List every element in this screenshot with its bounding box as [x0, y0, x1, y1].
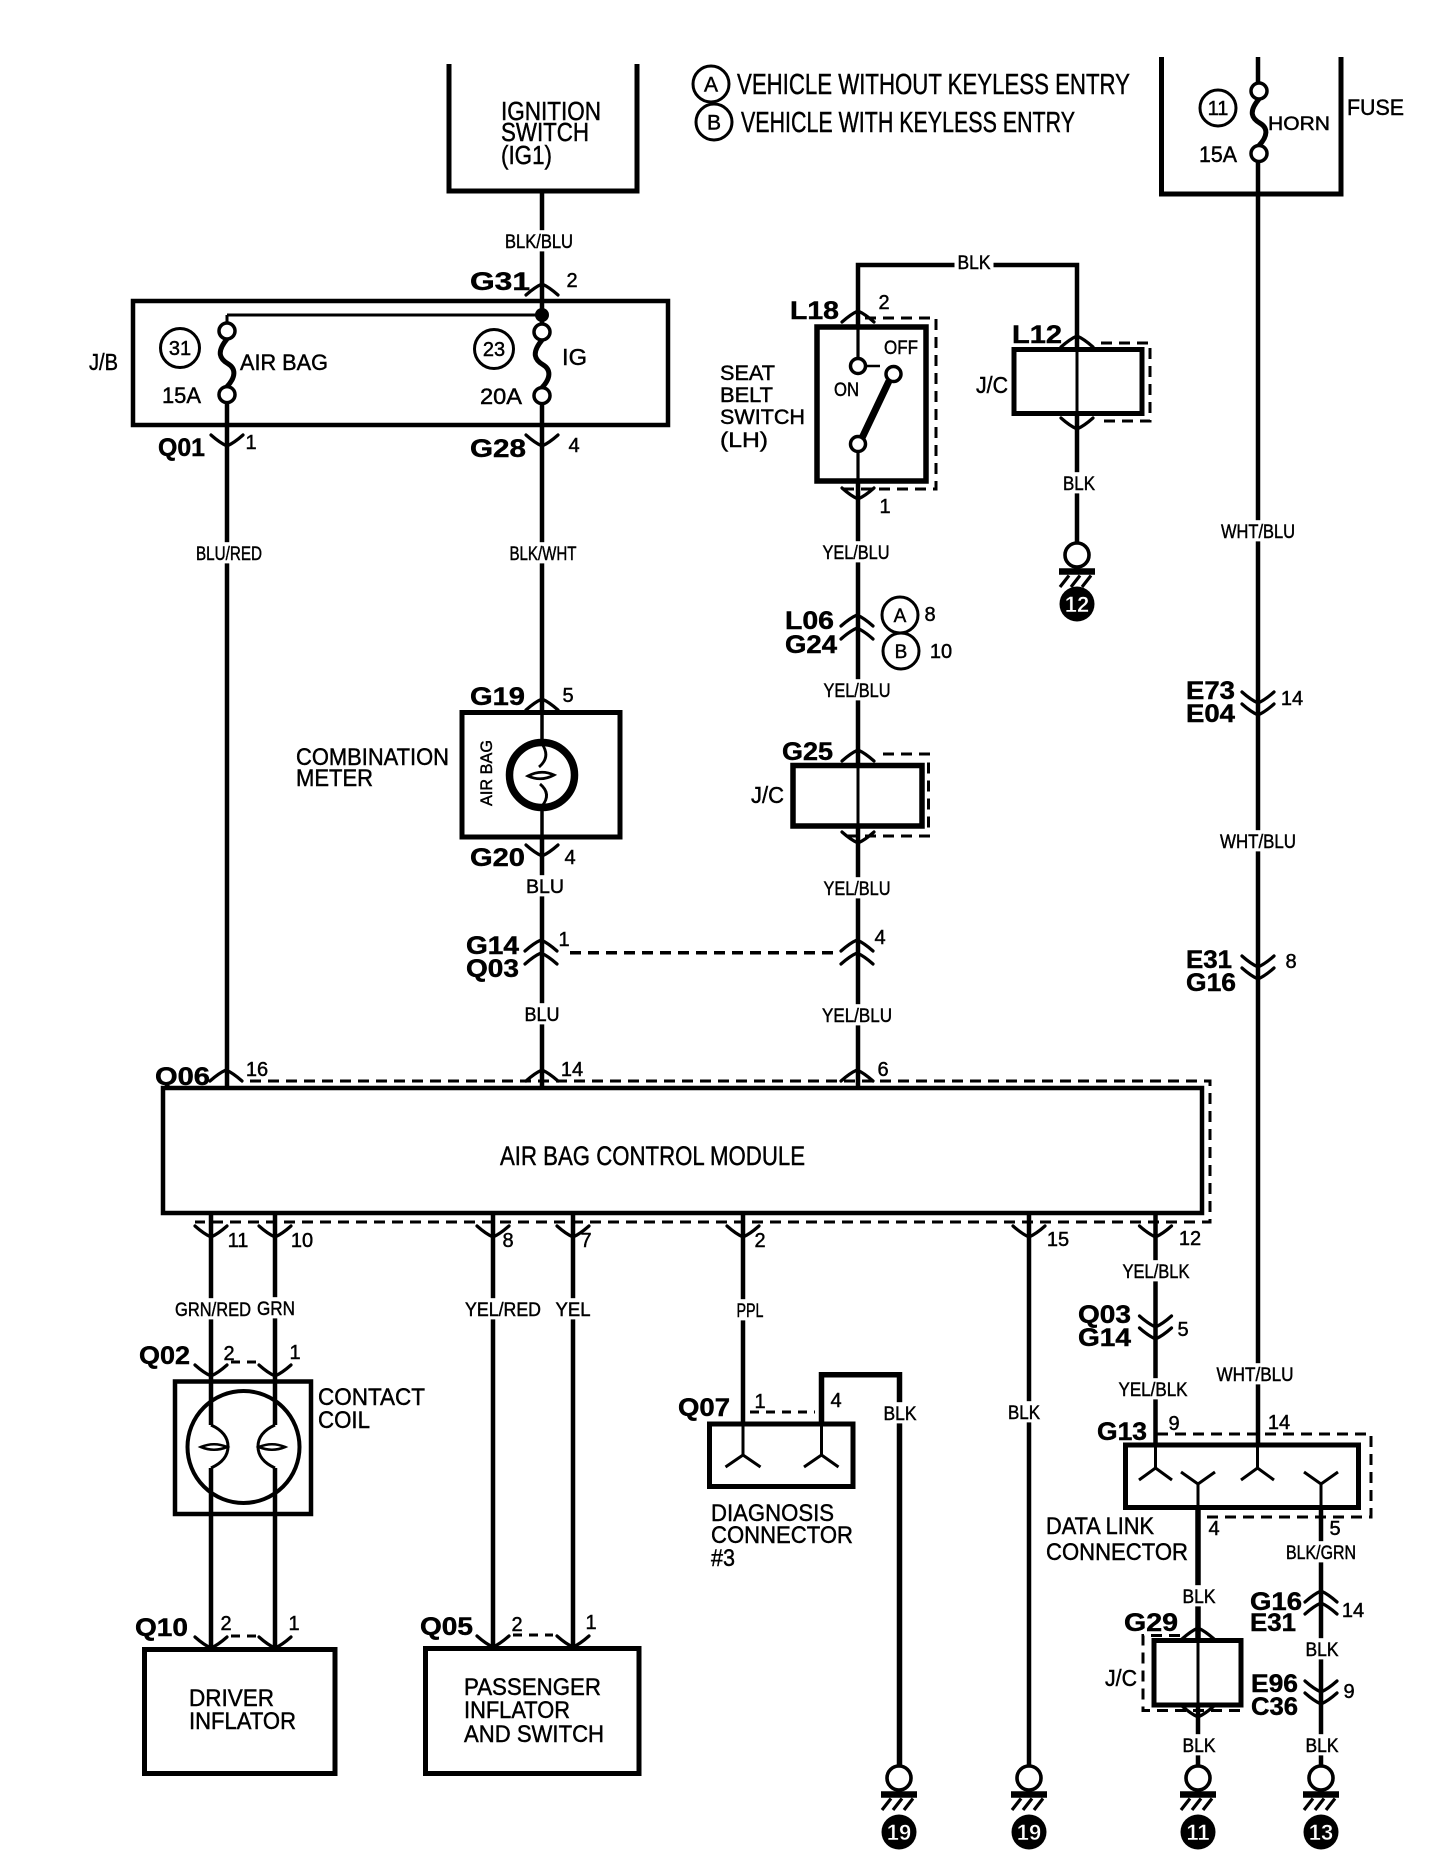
label BLU/RED: [193, 542, 265, 563]
contact coil box: [175, 1382, 311, 1515]
connector E96/C36 pin 9: [1305, 1681, 1337, 1692]
legend circle B: [696, 104, 732, 140]
svg-text:5: 5: [562, 685, 573, 707]
diagnosis connector #3 box: [710, 1424, 854, 1487]
legend circle A: [693, 66, 729, 102]
svg-text:Q05: Q05: [420, 1613, 473, 1641]
connector G19 pin 5: [526, 699, 558, 710]
label YEL/BLU: [820, 541, 893, 562]
module pin 6: [841, 1070, 873, 1081]
ground 19 (diagnosis): [887, 1766, 911, 1790]
junction connector G25 dashed outline: [840, 754, 929, 836]
svg-text:SEAT: SEAT: [720, 362, 775, 385]
connector Q01 pin 1: [211, 435, 243, 446]
label YEL/BLU 4: [819, 1004, 895, 1025]
svg-text:9: 9: [1343, 1681, 1354, 1703]
svg-text:YEL/BLU: YEL/BLU: [823, 543, 890, 564]
data link connector box G13: [1126, 1445, 1359, 1508]
connector seat belt switch pin 1: [842, 488, 874, 499]
svg-text:1: 1: [288, 1613, 299, 1635]
ground 19 (module pin 15): [1017, 1766, 1041, 1790]
wire YEL module pin 7 to passenger inflator: [571, 1213, 576, 1649]
label WHT/BLU: [1218, 520, 1298, 541]
data link connector dashed outline G13: [1157, 1434, 1371, 1517]
fuse 23 IG 20A: [534, 324, 550, 340]
ground 13: [1309, 1766, 1333, 1790]
svg-text:15A: 15A: [162, 383, 201, 408]
svg-text:GRN/RED: GRN/RED: [175, 1300, 251, 1321]
svg-text:INFLATOR: INFLATOR: [464, 1697, 570, 1724]
svg-text:BLK: BLK: [1306, 1640, 1339, 1661]
svg-text:BLK: BLK: [1008, 1403, 1040, 1424]
wire BLK data link connector pin 4 to ground 11: [1195, 1508, 1201, 1641]
wire YEL/RED module pin 8 to passenger inflator: [491, 1213, 496, 1649]
air bag control module dashed connector outline Q06: [195, 1081, 1210, 1222]
svg-text:Q02: Q02: [139, 1342, 190, 1370]
svg-text:Q06: Q06: [155, 1063, 210, 1091]
svg-text:AIR BAG CONTROL MODULE: AIR BAG CONTROL MODULE: [500, 1141, 805, 1171]
svg-text:4: 4: [564, 847, 575, 869]
svg-text:4: 4: [874, 927, 885, 949]
wire BLK/WHT G28 to combination meter G19: [540, 404, 545, 713]
connector E31/G16 pin 8: [1242, 956, 1274, 967]
svg-text:14: 14: [1342, 1600, 1364, 1622]
ignition switch box: [449, 64, 637, 191]
svg-text:(LH): (LH): [720, 429, 768, 452]
svg-text:C36: C36: [1251, 1693, 1298, 1721]
svg-text:19: 19: [1017, 1820, 1041, 1845]
svg-text:8: 8: [924, 604, 935, 626]
svg-text:20A: 20A: [480, 384, 522, 409]
svg-text:1: 1: [585, 1612, 596, 1634]
svg-text:BLK: BLK: [1306, 1736, 1339, 1757]
svg-text:VEHICLE WITHOUT KEYLESS ENTRY: VEHICLE WITHOUT KEYLESS ENTRY: [737, 69, 1130, 101]
svg-text:YEL/BLK: YEL/BLK: [1123, 1262, 1190, 1283]
svg-text:BLK/GRN: BLK/GRN: [1286, 1543, 1356, 1564]
connector Q06 pin 16: [210, 1070, 242, 1081]
svg-text:8: 8: [502, 1230, 513, 1252]
svg-text:AIR BAG: AIR BAG: [240, 350, 328, 375]
svg-text:7: 7: [580, 1230, 591, 1252]
connector G28 pin 4: [526, 435, 558, 446]
svg-text:11: 11: [1208, 98, 1229, 120]
wire BLK diagnosis connector pin 4 to ground 19: [822, 1375, 900, 1766]
connector G29: [1182, 1628, 1214, 1639]
label PPL: [734, 1299, 767, 1320]
svg-text:ON: ON: [834, 380, 859, 401]
svg-text:Q10: Q10: [135, 1614, 188, 1642]
svg-text:G13: G13: [1097, 1418, 1147, 1446]
svg-text:BLK: BLK: [884, 1404, 917, 1425]
svg-text:14: 14: [1268, 1412, 1290, 1434]
junction connector L12 dashed outline: [1099, 343, 1150, 421]
label BLK (DLC pin 4): [1180, 1585, 1219, 1606]
wire YEL/BLU seat belt switch pin1 to module pin 6: [856, 481, 861, 766]
driver inflator box: [145, 1650, 336, 1774]
svg-text:G16: G16: [1186, 969, 1236, 997]
connector G16/E31 pin 14: [1305, 1591, 1337, 1602]
wire WHT/BLU horn fuse to data link connector pin 14: [1256, 162, 1261, 1446]
svg-text:AIR BAG: AIR BAG: [477, 740, 496, 806]
svg-text:(IG1): (IG1): [501, 140, 552, 170]
wire BLK seat belt switch to L12: [858, 265, 1077, 350]
svg-text:YEL/BLU: YEL/BLU: [822, 1006, 892, 1027]
label YEL/BLK 2: [1116, 1378, 1191, 1399]
junction connector L12 J/C box: [1014, 350, 1142, 414]
svg-text:1: 1: [245, 432, 256, 454]
svg-text:4: 4: [568, 435, 579, 457]
svg-text:12: 12: [1065, 592, 1089, 617]
svg-text:1: 1: [879, 496, 890, 518]
label BLK (seat belt to L12): [955, 251, 994, 272]
svg-text:OFF: OFF: [884, 338, 918, 359]
connector L06/G24 pins 8(A) 10(B): [841, 615, 873, 626]
svg-text:2: 2: [878, 292, 889, 314]
fuse 31 AIR BAG 15A: [219, 323, 235, 339]
svg-text:WHT/BLU: WHT/BLU: [1217, 1365, 1294, 1386]
svg-text:FUSE: FUSE: [1347, 95, 1404, 120]
svg-text:YEL/BLU: YEL/BLU: [824, 879, 891, 900]
wire horn fuse feed: [1256, 57, 1261, 83]
svg-text:HORN: HORN: [1268, 114, 1330, 135]
svg-text:CONNECTOR: CONNECTOR: [1046, 1539, 1188, 1566]
label BLK/WHT: [507, 542, 580, 563]
svg-text:1: 1: [558, 929, 569, 951]
svg-text:1: 1: [289, 1342, 300, 1364]
connector G20 pin 4: [526, 845, 558, 856]
svg-text:10: 10: [291, 1230, 313, 1252]
seat belt switch box: [817, 327, 926, 481]
svg-text:GRN: GRN: [257, 1299, 295, 1320]
wire GRN module pin 10 to driver inflator: [273, 1213, 278, 1425]
svg-text:VEHICLE WITH KEYLESS ENTRY: VEHICLE WITH KEYLESS ENTRY: [741, 107, 1075, 139]
svg-text:BLU: BLU: [526, 877, 564, 898]
connector L18 pin 2: [842, 311, 874, 322]
label YEL/RED: [462, 1298, 544, 1319]
label BLK/GRN: [1283, 1541, 1359, 1562]
connector Q03/G14 pin 5: [1140, 1316, 1172, 1327]
connector Q10 pins 2 1: [195, 1637, 227, 1648]
svg-text:COIL: COIL: [318, 1407, 370, 1434]
label BLK/BLU: [502, 230, 576, 251]
svg-text:E31: E31: [1250, 1609, 1296, 1637]
svg-text:BLK/BLU: BLK/BLU: [505, 232, 573, 253]
svg-text:G25: G25: [782, 738, 833, 766]
svg-text:YEL/RED: YEL/RED: [465, 1300, 541, 1321]
svg-text:AND SWITCH: AND SWITCH: [464, 1721, 604, 1748]
svg-text:19: 19: [887, 1820, 911, 1845]
svg-text:YEL/BLK: YEL/BLK: [1119, 1380, 1188, 1401]
svg-text:BLK: BLK: [958, 253, 991, 274]
svg-text:Q07: Q07: [678, 1394, 730, 1422]
label BLU 2: [522, 1003, 563, 1024]
svg-text:11: 11: [228, 1230, 249, 1252]
label BLK (G16/E31): [1303, 1638, 1342, 1659]
wire inside L12 J/C: [1076, 350, 1079, 414]
svg-text:J/B: J/B: [89, 349, 118, 375]
wire BLK/GRN data link connector pin 5 to ground 13: [1319, 1508, 1324, 1767]
svg-text:15A: 15A: [1199, 142, 1237, 167]
connector E73/E04 pin 14: [1242, 692, 1274, 703]
svg-text:B: B: [707, 112, 721, 135]
svg-text:15: 15: [1047, 1229, 1069, 1251]
connector G14/Q03 pin 1: [525, 940, 557, 951]
svg-text:12: 12: [1179, 1228, 1201, 1250]
svg-text:16: 16: [246, 1059, 268, 1081]
wire YEL/BLK module pin 12 to data link connector pin 9: [1153, 1213, 1158, 1445]
svg-text:2: 2: [511, 1614, 522, 1636]
air bag control module box: [163, 1088, 1202, 1213]
label BLK (diagnosis pin 4): [881, 1402, 920, 1423]
svg-text:DATA LINK: DATA LINK: [1046, 1513, 1154, 1540]
connector G31 pin 2: [526, 284, 558, 295]
svg-text:G28: G28: [470, 435, 526, 463]
svg-text:G31: G31: [470, 268, 530, 296]
svg-text:BLK: BLK: [1183, 1587, 1216, 1608]
svg-text:A: A: [894, 606, 907, 627]
connector G25: [842, 750, 874, 761]
svg-text:2: 2: [754, 1230, 765, 1252]
wire BLK L12 to ground 12: [1075, 414, 1080, 544]
svg-text:Q01: Q01: [158, 434, 205, 462]
svg-text:Q03: Q03: [466, 955, 519, 983]
svg-text:YEL: YEL: [556, 1300, 591, 1321]
label WHT/BLU 2: [1217, 830, 1299, 851]
label WHT/BLU 3: [1214, 1363, 1297, 1384]
fuse 11 HORN 15A: [1251, 83, 1267, 99]
svg-text:2: 2: [566, 270, 577, 292]
wire BLU/RED Q01 to module pin 16: [225, 403, 230, 1088]
svg-text:2: 2: [220, 1613, 231, 1635]
svg-text:BLU/RED: BLU/RED: [196, 544, 262, 565]
svg-text:1: 1: [754, 1391, 765, 1413]
svg-text:6: 6: [877, 1059, 888, 1081]
svg-text:BLK: BLK: [1183, 1736, 1216, 1757]
svg-text:J/C: J/C: [751, 782, 784, 808]
svg-text:4: 4: [830, 1390, 841, 1412]
contact coil symbol: [188, 1391, 300, 1503]
svg-text:5: 5: [1329, 1518, 1340, 1540]
svg-text:BLU: BLU: [525, 1005, 560, 1026]
fuse box (top right): [1162, 57, 1342, 194]
junction block J/B: [133, 301, 668, 425]
svg-text:SWITCH: SWITCH: [720, 406, 805, 429]
junction dot: [535, 308, 549, 322]
wire PPL module pin 2 to diagnosis connector pin 1: [741, 1213, 746, 1424]
wire J/B internal bus: [227, 314, 542, 317]
wire BLK/BLU ignition switch to J/B: [540, 191, 545, 300]
combination meter box: [462, 713, 620, 838]
svg-text:YEL/BLU: YEL/BLU: [824, 681, 891, 702]
svg-text:13: 13: [1309, 1820, 1333, 1845]
svg-text:INFLATOR: INFLATOR: [189, 1708, 296, 1735]
svg-text:2: 2: [223, 1343, 234, 1365]
junction connector G29 dashed outline: [1143, 1636, 1246, 1711]
svg-text:G14: G14: [1078, 1324, 1131, 1352]
wire BLK module pin 15 to ground 19: [1027, 1213, 1032, 1766]
svg-text:PPL: PPL: [737, 1301, 764, 1322]
svg-text:31: 31: [169, 338, 191, 360]
label GRN: [254, 1297, 298, 1318]
svg-text:14: 14: [1281, 688, 1303, 710]
module bottom pins 11 10 8 7 2 15 12: [195, 1226, 227, 1237]
svg-text:#3: #3: [711, 1545, 735, 1572]
svg-text:9: 9: [1168, 1413, 1179, 1435]
label BLU: [523, 875, 567, 896]
label YEL/BLK: [1120, 1260, 1193, 1281]
svg-text:8: 8: [1285, 951, 1296, 973]
svg-text:J/C: J/C: [976, 372, 1008, 398]
svg-text:WHT/BLU: WHT/BLU: [1221, 522, 1295, 543]
label YEL/BLU 2: [821, 679, 894, 700]
svg-text:10: 10: [930, 641, 952, 663]
svg-text:METER: METER: [296, 765, 373, 792]
svg-text:J/C: J/C: [1105, 1665, 1137, 1691]
ground 12: [1065, 543, 1089, 567]
svg-text:BELT: BELT: [720, 384, 773, 407]
connector Q05 pins 2 1: [477, 1636, 509, 1647]
wire inside seat belt switch: [856, 327, 859, 359]
svg-text:E04: E04: [1186, 700, 1235, 728]
svg-text:L18: L18: [790, 297, 839, 325]
svg-text:4: 4: [1208, 1518, 1219, 1540]
label YEL: [553, 1298, 594, 1319]
module pin 14: [526, 1070, 558, 1081]
junction connector G29 J/C box: [1154, 1641, 1241, 1706]
data link connector pins: [1139, 1445, 1172, 1480]
connector G14/Q03 pin 4: [841, 940, 873, 951]
seat belt switch contacts: [866, 365, 880, 368]
svg-text:23: 23: [483, 339, 505, 361]
connector Q02 pins 2 1: [195, 1365, 227, 1376]
svg-text:14: 14: [561, 1059, 583, 1081]
dashed wire G14/Q03 pin1 to pin4: [570, 951, 835, 955]
svg-text:G24: G24: [785, 631, 837, 659]
svg-text:IG: IG: [562, 344, 587, 370]
svg-text:5: 5: [1177, 1319, 1188, 1341]
svg-text:G20: G20: [470, 844, 525, 872]
label BLK (module pin 15): [1005, 1401, 1043, 1422]
junction connector G25 J/C box: [793, 766, 922, 827]
diagnosis connector pins: [726, 1424, 761, 1467]
label BLK (L12 to ground): [1060, 472, 1098, 493]
connector Q07 pins 1 4: [750, 1411, 815, 1414]
svg-text:BLK/WHT: BLK/WHT: [510, 544, 577, 565]
svg-text:G29: G29: [1124, 1609, 1178, 1637]
svg-text:L12: L12: [1012, 321, 1062, 349]
svg-text:B: B: [895, 642, 908, 663]
ground 11: [1186, 1766, 1210, 1790]
svg-text:A: A: [704, 74, 718, 97]
label BLK (G29 to ground): [1180, 1734, 1219, 1755]
wire BLU G20 to module pin 14: [540, 837, 545, 1088]
seat belt switch dashed connector outline: [841, 318, 936, 489]
wire inside combination meter to air bag lamp: [540, 713, 544, 745]
label GRN/RED: [172, 1298, 254, 1319]
svg-text:WHT/BLU: WHT/BLU: [1220, 832, 1296, 853]
wire GRN/RED module pin 11 to driver inflator: [209, 1213, 214, 1425]
passenger inflator and switch box: [426, 1649, 640, 1774]
air bag indicator lamp: [510, 743, 575, 808]
svg-text:BLK: BLK: [1063, 474, 1095, 495]
connector L12: [1061, 336, 1093, 347]
svg-text:11: 11: [1186, 1820, 1209, 1845]
label YEL/BLU 3: [821, 877, 894, 898]
label BLK (E96/C36 to ground): [1303, 1734, 1342, 1755]
svg-text:G19: G19: [470, 683, 525, 711]
